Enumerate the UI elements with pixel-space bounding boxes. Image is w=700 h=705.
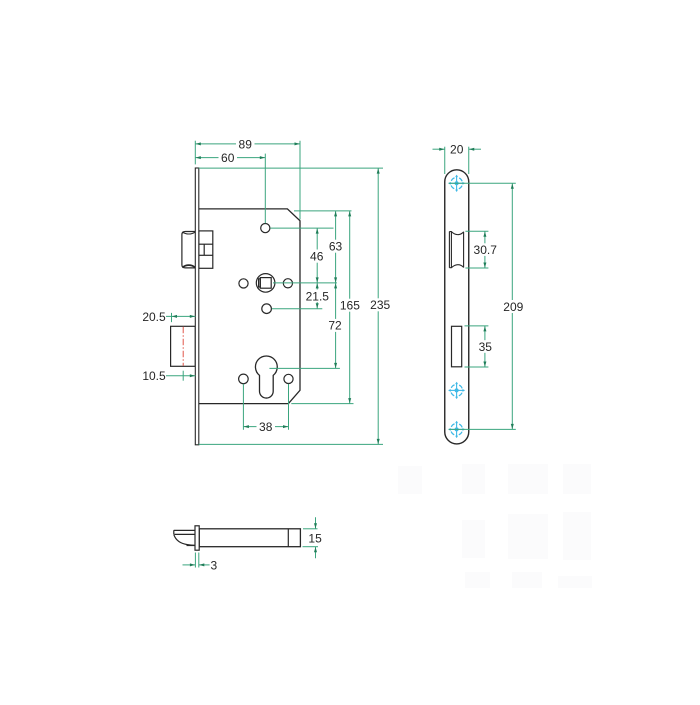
- dimension 35: [476, 326, 495, 367]
- extension line at deadbolt nose (for 20.5): [171, 313, 173, 322]
- dimension 72: [326, 283, 345, 369]
- screw hole target bottom: [448, 421, 465, 438]
- faceplate outline (stadium): [445, 170, 469, 444]
- dimension 30.7: [472, 231, 499, 268]
- screw hole target middle: [448, 382, 465, 399]
- latch bolt nose (side view): [174, 530, 195, 545]
- extension tick at deadbolt centreline (for 10.5): [182, 371, 184, 381]
- extension line spindle centre (for 46/21.5/63/72): [273, 282, 337, 284]
- svg-text:21.5: 21.5: [306, 289, 330, 303]
- left fixing hole: [239, 279, 248, 288]
- extension lines for 30.7: [465, 231, 488, 268]
- dimension 63: [326, 211, 345, 283]
- extension line body top (for 63/165): [294, 210, 352, 212]
- extension lines for 3: [195, 553, 198, 568]
- euro cylinder cutout: [255, 356, 277, 398]
- extension line bottom screw target (for 209): [449, 428, 516, 430]
- dimension 46: [308, 228, 327, 283]
- faceplate (edge view strip): [195, 168, 199, 445]
- extension lines for 15: [303, 529, 319, 547]
- extension line faceplate bottom (for 235): [199, 443, 383, 445]
- dimension 21.5: [305, 283, 331, 309]
- dimension 235: [369, 168, 393, 444]
- svg-text:235: 235: [370, 298, 390, 312]
- svg-text:72: 72: [328, 319, 342, 333]
- extension line lower hub (for 21.5): [272, 308, 323, 310]
- latch bolt (edge view, left of faceplate): [182, 232, 195, 268]
- svg-text:38: 38: [259, 420, 273, 434]
- right fixing hole: [283, 279, 292, 288]
- dimension 60: [195, 151, 265, 165]
- svg-text:30.7: 30.7: [474, 243, 498, 257]
- deadbolt (thrown, left of faceplate): [171, 326, 196, 366]
- lock body outline: [199, 209, 300, 404]
- dimension 20: [433, 143, 482, 157]
- spindle follower U1: [256, 274, 275, 293]
- deadbolt centreline (red dash-dot): [182, 327, 184, 366]
- svg-text:10.5: 10.5: [142, 369, 166, 383]
- svg-text:3: 3: [211, 558, 218, 572]
- svg-text:20.5: 20.5: [142, 310, 166, 324]
- svg-text:89: 89: [239, 137, 253, 151]
- extension line at faceplate face (for 89/60): [194, 141, 196, 165]
- latch opening with latch bolt face: [449, 232, 463, 268]
- top hub hole: [261, 224, 270, 233]
- extension line euro cylinder centre (for 72): [269, 367, 340, 369]
- deadbolt opening: [452, 326, 462, 367]
- dimension 89: [195, 137, 300, 151]
- svg-text:46: 46: [310, 249, 324, 263]
- bottom right screw hole: [284, 374, 293, 383]
- dimension 10.5: [142, 369, 195, 383]
- screw hole target top: [448, 175, 465, 192]
- extension line body bottom (for 165): [291, 403, 353, 405]
- extension line bottom-right screw hole (for 38): [288, 384, 290, 430]
- extension line faceplate top (for 235): [199, 167, 383, 169]
- dimension 3: [183, 558, 218, 572]
- dimension 20.5: [142, 310, 195, 324]
- bottom left screw hole: [239, 374, 249, 384]
- latch follower box (behind faceplate): [199, 231, 213, 268]
- extension line bottom-left screw hole (for 38): [242, 384, 244, 430]
- svg-text:20: 20: [450, 143, 464, 157]
- svg-text:165: 165: [340, 299, 360, 313]
- extension line top screw target (for 209): [449, 182, 516, 184]
- dimension 209: [502, 183, 526, 429]
- svg-text:35: 35: [479, 340, 493, 354]
- dimension 38: [243, 420, 288, 434]
- extension line top hub (for 46): [270, 227, 333, 229]
- svg-text:15: 15: [308, 532, 322, 546]
- lower hub hole: [262, 304, 272, 314]
- svg-text:60: 60: [221, 151, 235, 165]
- faceplate (section, bottom view): [195, 526, 199, 550]
- latch case (side view): [199, 529, 300, 547]
- extension line at hub centre x (for 60): [264, 154, 266, 224]
- latch case end line: [287, 529, 289, 547]
- dimension 15: [307, 517, 326, 558]
- svg-text:209: 209: [503, 300, 523, 314]
- dimension 165: [339, 211, 362, 404]
- extension lines for 35: [465, 326, 489, 367]
- extension line at body right edge (for 89): [299, 141, 301, 220]
- svg-text:63: 63: [329, 240, 343, 254]
- extension lines for 20: [445, 147, 469, 174]
